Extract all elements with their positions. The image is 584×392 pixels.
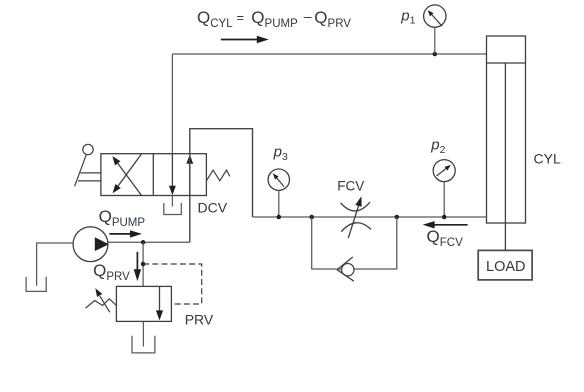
gauge p3 xyxy=(268,169,289,217)
DCV valve body (2-position envelope) xyxy=(101,154,206,196)
PRV internal flow arrow (downward) xyxy=(156,286,163,320)
svg-text:DCV: DCV xyxy=(198,200,228,216)
svg-text:QFCV: QFCV xyxy=(427,227,464,249)
PRV adjustable spring xyxy=(86,299,117,308)
svg-text:CYL: CYL xyxy=(534,151,561,167)
wire: pump pressure line up through DCV and over to FCV line xyxy=(190,129,253,243)
DCV right envelope up-flow path with arrowhead (P to B) xyxy=(186,154,193,195)
wire: check valve bypass loop xyxy=(312,217,397,269)
FCV variable flow control valve symbol xyxy=(341,202,371,238)
DCV return spring xyxy=(206,170,230,181)
svg-text:QCYL: QCYL xyxy=(197,8,233,30)
tank symbol below DCV xyxy=(164,203,182,215)
cylinder piston xyxy=(487,62,526,64)
svg-text:p1: p1 xyxy=(400,7,415,26)
svg-text:FCV: FCV xyxy=(337,178,364,193)
node: junction dot p2 xyxy=(442,215,447,220)
svg-text:QPRV: QPRV xyxy=(314,8,351,30)
flow arrow Q_FCV (leftward) xyxy=(423,221,468,228)
svg-text:QPUMP: QPUMP xyxy=(251,8,298,30)
svg-text:LOAD: LOAD xyxy=(486,259,526,275)
flow arrow Q_PRV (downward) xyxy=(134,252,141,281)
DCV lever actuator xyxy=(75,144,101,186)
node: junction dot p1 stem on top line xyxy=(433,52,438,57)
check valve (free flow right-to-left) xyxy=(337,257,354,281)
gauge p2 xyxy=(433,160,455,217)
wire: DCV tank stub xyxy=(171,196,173,207)
svg-text:PRV: PRV xyxy=(185,312,214,328)
svg-text:QPUMP: QPUMP xyxy=(99,207,146,229)
wire: PRV tank stub xyxy=(142,321,144,346)
wire: top line valve A-port to cylinder cap end xyxy=(172,53,486,55)
dashed pilot line to PRV xyxy=(143,264,202,304)
wire: main metered line to cylinder rod end xyxy=(253,216,487,218)
node: junction dot pump output / PRV branch xyxy=(141,240,146,245)
PRV adjustment arrow xyxy=(95,288,110,312)
node: junction dot bypass right xyxy=(395,215,400,220)
wire: PRV branch down from pump line xyxy=(142,242,144,286)
svg-text:–: – xyxy=(304,8,312,24)
svg-text:=: = xyxy=(237,10,245,25)
LOAD box xyxy=(478,250,532,280)
pump output wire xyxy=(108,241,190,243)
cylinder CYL barrel xyxy=(487,36,526,223)
pump (circle with solid triangle) xyxy=(73,227,109,262)
svg-text:p2: p2 xyxy=(430,136,445,155)
wire: vertical drop from top line into DCV (A to T path) xyxy=(171,54,173,187)
node: junction dot p3 xyxy=(277,215,282,220)
DCV right envelope down-flow path with arrowhead (A to T) xyxy=(169,154,176,196)
label equation Q_CYL = Q_PUMP - Q_PRV xyxy=(197,8,351,30)
svg-text:p3: p3 xyxy=(273,143,288,162)
PRV pressure relief valve body xyxy=(116,286,171,321)
gauge p1 xyxy=(424,5,446,54)
DCV left envelope crossed arrow (to upper-left) xyxy=(112,156,141,195)
suction tank symbol xyxy=(26,277,46,292)
flow arrow Q_CYL xyxy=(221,36,269,43)
svg-text:QPRV: QPRV xyxy=(93,261,130,283)
pump suction wire xyxy=(37,243,74,286)
cylinder rod to load xyxy=(504,63,506,250)
node: junction dot pilot line branch xyxy=(141,262,146,267)
flow arrow Q_PUMP xyxy=(109,230,142,237)
DCV left envelope crossed arrow (to lower-left) xyxy=(113,154,142,193)
node: junction dot bypass left xyxy=(309,215,314,220)
tank symbol below PRV xyxy=(132,336,155,353)
